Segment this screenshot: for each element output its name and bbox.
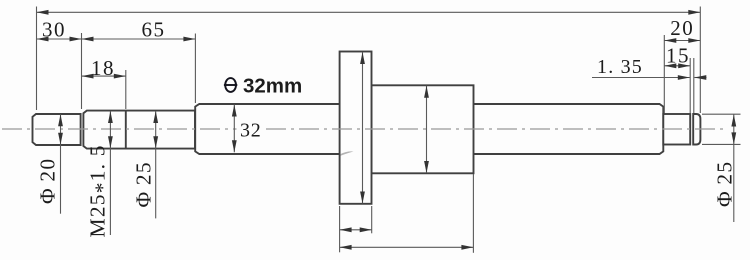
svg-text:32: 32 <box>240 120 262 142</box>
svg-text:65: 65 <box>142 17 166 41</box>
svg-text:32mm: 32mm <box>243 74 302 97</box>
svg-text:20: 20 <box>670 16 694 40</box>
svg-text:18: 18 <box>91 56 115 80</box>
svg-text:30: 30 <box>42 18 66 42</box>
svg-text:1. 35: 1. 35 <box>597 56 643 78</box>
svg-text:15: 15 <box>666 44 690 68</box>
svg-text:Φ 25: Φ 25 <box>713 161 737 207</box>
svg-text:Φ 20: Φ 20 <box>36 158 60 204</box>
svg-text:Φ 25: Φ 25 <box>132 161 156 207</box>
